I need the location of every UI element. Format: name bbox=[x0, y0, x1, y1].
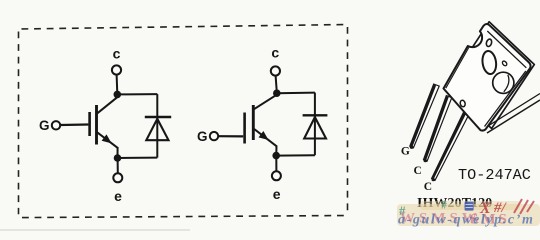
watermark tan band bbox=[397, 204, 540, 226]
node emitter Q2 (junction dot) bbox=[272, 152, 280, 160]
svg-text:e: e bbox=[273, 186, 281, 202]
D2 vertical branch wire bbox=[314, 93, 316, 156]
wire gate lead Q1 bbox=[60, 123, 88, 126]
D2 cathode bar bbox=[303, 114, 328, 116]
terminal G (Q2) open circle bbox=[210, 132, 218, 140]
faint scan line bottom left bbox=[0, 229, 190, 230]
wire bottom rail Q1 to D1 bbox=[118, 157, 158, 159]
svg-text:C: C bbox=[413, 165, 421, 177]
dashed enclosure box bbox=[19, 25, 348, 218]
wire emitter to node Q1 bbox=[117, 147, 119, 156]
terminal e (Q1) open circle bbox=[113, 173, 122, 182]
svg-text:G: G bbox=[197, 129, 208, 144]
package side band middle edge bbox=[484, 94, 540, 129]
wire node to e terminal Q1 bbox=[117, 158, 119, 173]
svg-text:G: G bbox=[39, 118, 50, 133]
wire node to e terminal Q2 bbox=[275, 156, 277, 172]
svg-text:#: # bbox=[441, 198, 447, 212]
svg-text:C: C bbox=[424, 181, 432, 193]
Q1 collector arm bbox=[97, 97, 117, 113]
package dome bulge bbox=[493, 72, 514, 93]
Q2 body bar bbox=[252, 105, 255, 140]
node emitter Q1 (junction dot) bbox=[114, 154, 122, 162]
svg-text:e: e bbox=[114, 188, 122, 204]
svg-text:a-gulw-qwelyp.c’m: a-gulw-qwelyp.c’m bbox=[398, 213, 534, 228]
svg-text:c: c bbox=[271, 44, 279, 60]
svg-text:TO-247AC: TO-247AC bbox=[458, 166, 531, 184]
wire bottom rail Q2 to D2 bbox=[276, 154, 315, 156]
Q2 gate bar bbox=[243, 113, 246, 144]
Q2 emitter arm bbox=[254, 129, 276, 146]
watermark bbox=[397, 198, 540, 228]
svg-text:c: c bbox=[113, 45, 121, 61]
package small pilot hole lower bbox=[460, 100, 466, 108]
package lead 1 (G) bbox=[410, 84, 439, 149]
wire c terminal to collector node Q2 bbox=[276, 76, 277, 90]
D1 vertical branch wire bbox=[156, 94, 158, 158]
Q1 emitter arm bbox=[97, 132, 117, 147]
package mounting hole bbox=[481, 50, 497, 75]
package ejector pin mark bbox=[502, 60, 508, 66]
wire gate lead Q2 bbox=[218, 135, 243, 137]
svg-text:G: G bbox=[401, 146, 410, 158]
wire top rail Q2 to D2 bbox=[277, 92, 315, 95]
node collector Q2 (junction dot) bbox=[273, 89, 281, 97]
wire emitter to node Q2 bbox=[275, 146, 277, 154]
terminal G (Q1) open circle bbox=[52, 121, 60, 129]
D1 triangle (anode) bbox=[146, 119, 168, 140]
terminal c (Q2) open circle bbox=[271, 66, 280, 75]
package mold line left edge bbox=[446, 48, 469, 89]
terminal e (Q2) open circle bbox=[272, 171, 281, 180]
watermark blue block over 1 bbox=[465, 202, 474, 211]
package dome inner line bbox=[504, 75, 509, 92]
Q1 emitter arrow bbox=[102, 134, 112, 143]
package body face bbox=[444, 24, 531, 131]
package chamfer line top-right bbox=[487, 31, 526, 68]
package lead 3 (C front) bbox=[432, 112, 470, 182]
Q2 emitter arrow bbox=[259, 131, 269, 140]
D1 cathode bar bbox=[145, 116, 171, 118]
package chamfer line bottom-right bbox=[485, 71, 526, 127]
node collector Q1 (junction dot) bbox=[114, 91, 122, 99]
wire c terminal to collector node bbox=[116, 75, 119, 92]
package back slab edge bbox=[447, 22, 534, 129]
wire top rail Q1 to D1 bbox=[117, 93, 157, 95]
Q2 collector arm bbox=[254, 95, 276, 109]
D2 triangle (anode) bbox=[304, 117, 326, 138]
package small pilot hole bbox=[485, 38, 492, 47]
Q1 gate bar bbox=[88, 112, 91, 136]
terminal c (Q1) open circle bbox=[112, 65, 121, 74]
package side band outer edge bbox=[487, 100, 540, 133]
package lead 2 (C middle) bbox=[424, 96, 452, 163]
Q1 body bar bbox=[95, 105, 98, 145]
